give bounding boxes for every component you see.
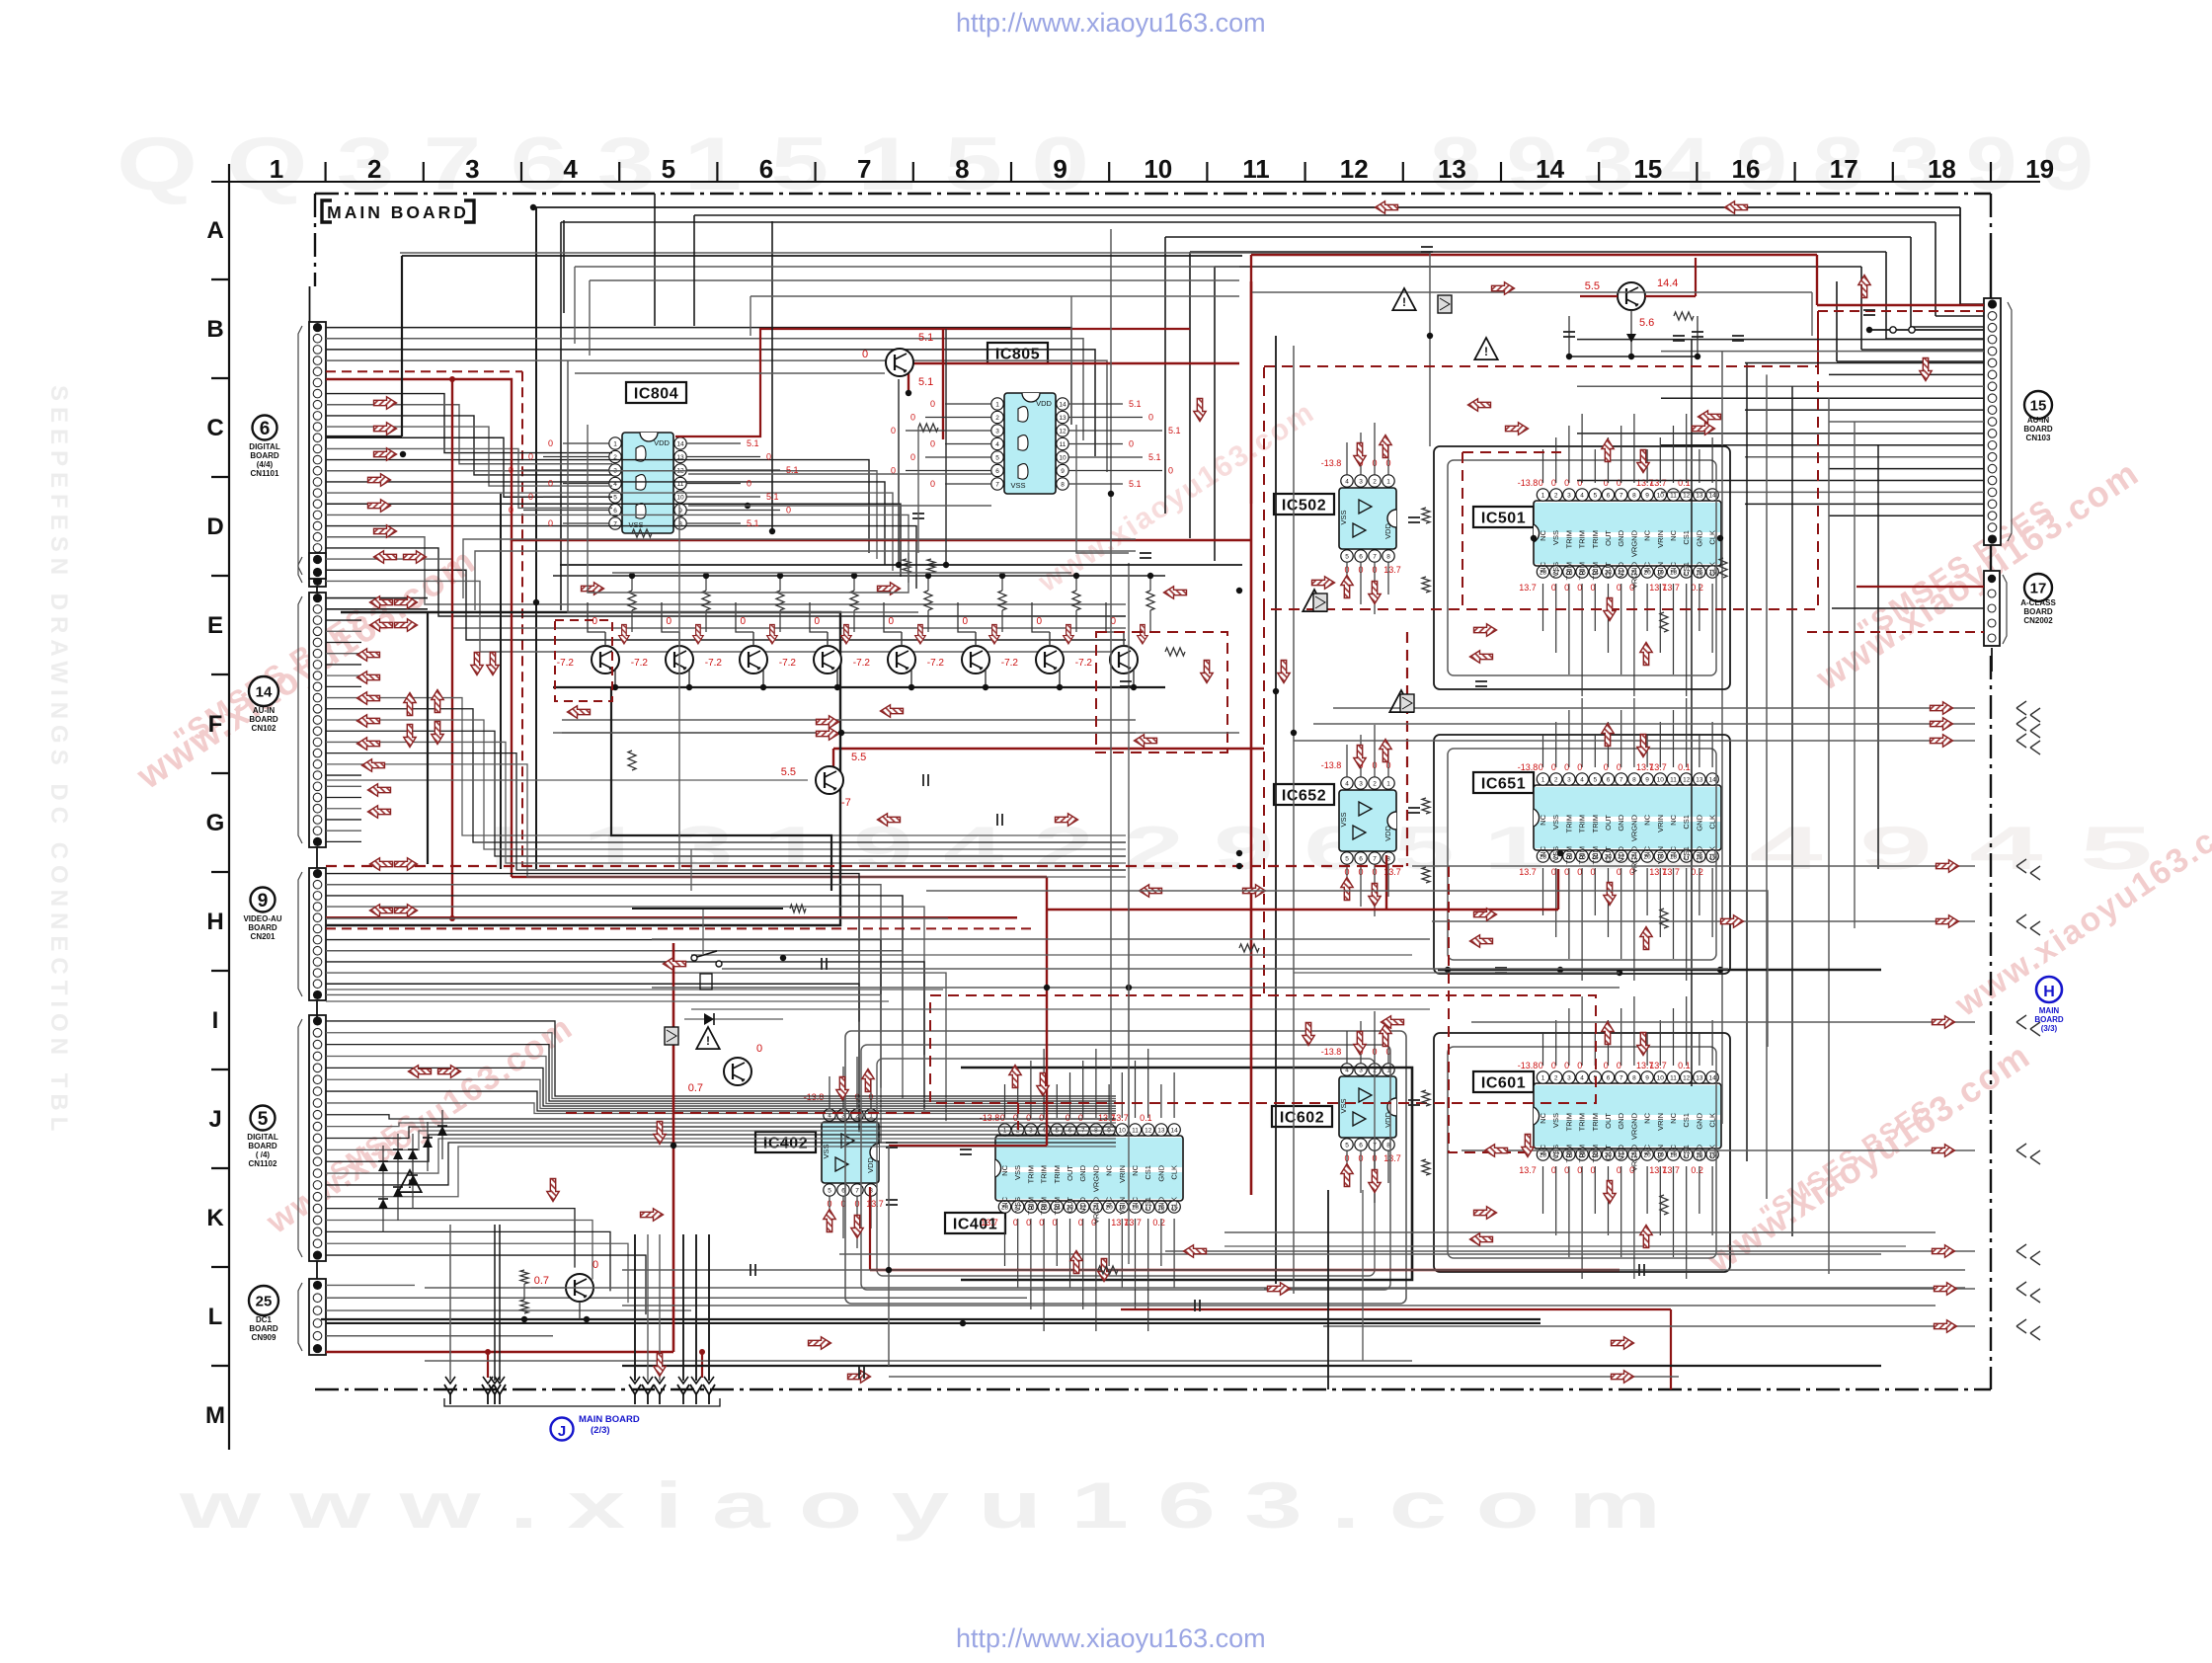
svg-text:6: 6 (613, 508, 617, 515)
svg-text:12: 12 (1683, 1075, 1691, 1082)
svg-text:3: 3 (1567, 1075, 1571, 1082)
svg-text:0: 0 (1129, 439, 1134, 449)
svg-text:VDD: VDD (866, 1157, 875, 1173)
svg-text:BOARD: BOARD (248, 923, 277, 932)
svg-text:IC652: IC652 (1282, 788, 1326, 805)
svg-text:NC: NC (1643, 814, 1652, 825)
svg-text:16: 16 (1732, 154, 1761, 184)
svg-text:VSS: VSS (1551, 815, 1560, 830)
svg-text:13.7: 13.7 (981, 1218, 998, 1227)
svg-text:0: 0 (1168, 466, 1173, 476)
svg-text:0: 0 (862, 349, 868, 360)
svg-text:10: 10 (1119, 1128, 1127, 1135)
svg-text:CN2002: CN2002 (2023, 616, 2053, 625)
svg-text:5: 5 (1593, 493, 1597, 500)
svg-text:(4/4): (4/4) (257, 460, 274, 469)
svg-text:TRIM: TRIM (1040, 1165, 1049, 1183)
svg-text:6: 6 (1359, 1143, 1363, 1149)
svg-text:-7.2: -7.2 (1001, 658, 1019, 669)
svg-text:0: 0 (666, 616, 671, 627)
svg-text:VIDEO-AU: VIDEO-AU (243, 914, 281, 923)
svg-text:VRIN: VRIN (1118, 1197, 1127, 1215)
svg-text:A: A (206, 217, 223, 244)
svg-text:CS1: CS1 (1144, 1197, 1152, 1212)
svg-text:4: 4 (1345, 479, 1349, 486)
svg-text:7: 7 (995, 482, 999, 489)
svg-text:A-CLASS: A-CLASS (2020, 598, 2056, 607)
svg-text:19: 19 (2025, 154, 2054, 184)
svg-text:5.1: 5.1 (766, 492, 779, 502)
svg-text:GND: GND (1156, 1196, 1165, 1213)
svg-text:D: D (206, 514, 223, 540)
svg-text:2: 2 (1554, 777, 1558, 784)
svg-text:I: I (212, 1007, 219, 1034)
svg-text:CS1: CS1 (1144, 1165, 1152, 1180)
svg-text:6: 6 (759, 154, 773, 184)
svg-text:7: 7 (857, 154, 871, 184)
svg-text:-7.2: -7.2 (557, 658, 575, 669)
svg-text:10: 10 (1657, 777, 1665, 784)
svg-text:5: 5 (1345, 1143, 1349, 1149)
svg-text:12: 12 (1059, 429, 1066, 436)
svg-text:TRIM: TRIM (1578, 562, 1587, 580)
svg-text:0.7: 0.7 (688, 1082, 703, 1094)
svg-text:OUT: OUT (1604, 1113, 1613, 1129)
svg-text:-13.8: -13.8 (1518, 1061, 1539, 1070)
svg-text:10: 10 (676, 495, 684, 502)
svg-text:5: 5 (662, 154, 675, 184)
svg-text:0: 0 (1148, 413, 1153, 423)
svg-text:0.7: 0.7 (534, 1275, 549, 1287)
svg-text:3: 3 (1567, 777, 1571, 784)
svg-text:VRIN: VRIN (1656, 1113, 1665, 1131)
svg-text:NC: NC (1539, 561, 1547, 572)
svg-text:4: 4 (1580, 1075, 1584, 1082)
svg-text:( /4): ( /4) (256, 1150, 271, 1159)
svg-text:VRIN: VRIN (1656, 530, 1665, 548)
svg-text:VSS: VSS (1551, 530, 1560, 545)
svg-text:1: 1 (1541, 777, 1545, 784)
svg-text:CN201: CN201 (251, 932, 276, 941)
svg-text:IC651: IC651 (1481, 776, 1526, 793)
svg-text:13: 13 (1157, 1128, 1165, 1135)
svg-text:TRIM: TRIM (1591, 846, 1600, 864)
svg-text:0: 0 (756, 1043, 762, 1055)
svg-text:13.7: 13.7 (1662, 867, 1680, 877)
svg-text:VSS: VSS (1551, 1113, 1560, 1128)
svg-text:-13.8: -13.8 (980, 1113, 1000, 1123)
svg-text:11: 11 (1242, 154, 1270, 184)
svg-text:8: 8 (955, 154, 969, 184)
svg-text:VRIN: VRIN (1656, 1145, 1665, 1162)
svg-text:0: 0 (930, 479, 935, 489)
svg-text:10: 10 (1059, 455, 1066, 462)
svg-text:0: 0 (548, 438, 553, 448)
svg-text:1: 1 (1386, 479, 1390, 486)
svg-text:2: 2 (1554, 493, 1558, 500)
svg-text:CS1: CS1 (1682, 1145, 1691, 1159)
svg-text:VSS: VSS (1551, 562, 1560, 577)
svg-text:5.5: 5.5 (781, 766, 796, 778)
svg-text:2: 2 (995, 415, 999, 422)
svg-text:6: 6 (1607, 493, 1611, 500)
svg-text:14: 14 (256, 683, 273, 700)
svg-text:VRGND: VRGND (1629, 1112, 1638, 1140)
svg-text:CS1: CS1 (1682, 562, 1691, 577)
svg-text:GND: GND (1695, 814, 1703, 831)
svg-text:13: 13 (1696, 493, 1703, 500)
svg-text:6: 6 (1607, 1075, 1611, 1082)
svg-text:11: 11 (1670, 493, 1677, 500)
svg-text:NC: NC (1105, 1164, 1114, 1175)
svg-text:13: 13 (1696, 777, 1703, 784)
svg-text:H: H (2043, 984, 2055, 1000)
svg-text:6: 6 (260, 419, 271, 439)
svg-text:5: 5 (1593, 777, 1597, 784)
svg-text:VDD: VDD (1617, 561, 1625, 577)
svg-text:14: 14 (1536, 154, 1564, 184)
svg-text:VSS: VSS (1013, 1197, 1022, 1212)
svg-text:M: M (205, 1402, 225, 1429)
svg-text:2: 2 (367, 154, 381, 184)
svg-text:4: 4 (1345, 781, 1349, 788)
svg-text:K: K (206, 1205, 224, 1231)
svg-text:0: 0 (592, 616, 597, 627)
svg-text:11: 11 (1670, 1075, 1677, 1082)
svg-text:IC502: IC502 (1282, 498, 1326, 515)
svg-text:8: 8 (1632, 1075, 1636, 1082)
svg-text:14: 14 (1059, 402, 1066, 409)
svg-text:TRIM: TRIM (1564, 815, 1573, 832)
svg-text:VSS: VSS (1339, 812, 1348, 827)
svg-text:13.7: 13.7 (1519, 583, 1537, 593)
svg-text:13: 13 (1059, 415, 1066, 422)
svg-text:0: 0 (962, 616, 968, 627)
svg-text:2: 2 (1373, 781, 1377, 788)
svg-text:TRIM: TRIM (1591, 1113, 1600, 1131)
svg-text:C: C (206, 415, 223, 441)
svg-text:H: H (206, 909, 223, 935)
svg-text:9: 9 (258, 891, 269, 911)
svg-text:3: 3 (465, 154, 479, 184)
svg-text:0: 0 (592, 1259, 598, 1271)
svg-text:IC402: IC402 (763, 1136, 808, 1152)
svg-text:7: 7 (1619, 1075, 1623, 1082)
svg-text:NC: NC (1539, 529, 1547, 540)
svg-text:(3/3): (3/3) (2041, 1024, 2058, 1033)
svg-text:7: 7 (1619, 493, 1623, 500)
svg-text:0.1: 0.1 (1678, 762, 1691, 772)
svg-text:CS1: CS1 (1682, 846, 1691, 861)
svg-text:"SMSES BSES: "SMSES BSES (1755, 1092, 1937, 1229)
svg-text:SEEPEFESN DRAWINGS DC CONNECTI: SEEPEFESN DRAWINGS DC CONNECTION TBL (45, 385, 72, 1137)
svg-text:3: 3 (1359, 781, 1363, 788)
svg-text:3: 3 (1359, 479, 1363, 486)
svg-text:5.1: 5.1 (918, 376, 933, 388)
svg-text:0: 0 (888, 616, 894, 627)
svg-text:9: 9 (1061, 468, 1065, 475)
svg-text:B: B (206, 316, 223, 343)
svg-text:GND: GND (1695, 845, 1703, 862)
svg-text:CN909: CN909 (252, 1333, 276, 1342)
svg-text:VRGND: VRGND (1629, 529, 1638, 557)
svg-text:11: 11 (1670, 777, 1677, 784)
svg-text:0: 0 (1036, 616, 1042, 627)
svg-text:7: 7 (855, 1188, 859, 1195)
svg-text:5: 5 (1345, 856, 1349, 863)
svg-text:NC: NC (1643, 561, 1652, 572)
svg-text:DC1: DC1 (256, 1315, 273, 1324)
svg-text:VDD: VDD (1617, 845, 1625, 861)
svg-text:14: 14 (1708, 493, 1716, 500)
svg-text:http://www.xiaoyu163.com: http://www.xiaoyu163.com (956, 1623, 1266, 1653)
svg-text:TRIM: TRIM (1026, 1165, 1035, 1183)
svg-text:TRIM: TRIM (1026, 1197, 1035, 1215)
svg-text:OUT: OUT (1066, 1165, 1074, 1181)
svg-text:0: 0 (528, 452, 533, 462)
svg-text:0: 0 (910, 413, 915, 423)
svg-text:0.2: 0.2 (1691, 867, 1703, 877)
svg-text:BOARD: BOARD (249, 715, 278, 724)
svg-text:VRIN: VRIN (1118, 1165, 1127, 1183)
svg-text:13.7: 13.7 (1124, 1218, 1142, 1227)
svg-text:15: 15 (2030, 397, 2047, 414)
svg-text:8: 8 (1386, 554, 1390, 561)
svg-text:5: 5 (828, 1188, 831, 1195)
svg-text:13.7: 13.7 (1649, 1061, 1667, 1070)
svg-text:MAIN BOARD: MAIN BOARD (579, 1414, 640, 1425)
svg-text:TRIM: TRIM (1591, 815, 1600, 832)
svg-text:4: 4 (995, 441, 999, 448)
svg-text:1: 1 (1386, 781, 1390, 788)
svg-text:CN1102: CN1102 (249, 1159, 277, 1168)
svg-text:VSS: VSS (1339, 1098, 1348, 1113)
svg-text:9: 9 (1645, 777, 1649, 784)
svg-text:18: 18 (1928, 154, 1956, 184)
svg-text:4: 4 (1580, 493, 1584, 500)
svg-text:9: 9 (1645, 1075, 1649, 1082)
svg-text:0: 0 (930, 399, 935, 409)
svg-text:BOARD: BOARD (249, 1324, 278, 1333)
svg-text:VDD: VDD (654, 438, 670, 447)
svg-text:CS1: CS1 (1682, 815, 1691, 830)
svg-text:OUT: OUT (1604, 815, 1613, 831)
svg-text:5.1: 5.1 (1129, 399, 1142, 409)
svg-text:12: 12 (1683, 777, 1691, 784)
svg-text:CN1101: CN1101 (251, 469, 279, 478)
svg-text:0.1: 0.1 (1140, 1113, 1152, 1123)
svg-text:TRIM: TRIM (1053, 1197, 1062, 1215)
svg-text:0: 0 (740, 616, 746, 627)
svg-text:0: 0 (528, 492, 533, 502)
svg-text:OUT: OUT (1604, 562, 1613, 578)
svg-text:5.1: 5.1 (747, 438, 759, 448)
svg-text:10: 10 (1657, 493, 1665, 500)
svg-text:VSS: VSS (1551, 1145, 1560, 1159)
svg-text:7: 7 (1619, 777, 1623, 784)
svg-text:5: 5 (258, 1109, 269, 1130)
svg-text:TRIM: TRIM (1053, 1165, 1062, 1183)
svg-text:-7.2: -7.2 (705, 658, 723, 669)
svg-text:25: 25 (256, 1293, 273, 1309)
svg-text:2: 2 (1373, 479, 1377, 486)
svg-text:NC: NC (1539, 1144, 1547, 1154)
svg-text:OUT: OUT (1604, 530, 1613, 546)
svg-text:GND: GND (1695, 1112, 1703, 1129)
svg-text:VDD: VDD (1383, 523, 1392, 539)
svg-text:NC: NC (1539, 814, 1547, 825)
svg-text:GND: GND (1156, 1164, 1165, 1181)
svg-text:VSS: VSS (628, 520, 643, 529)
svg-text:NC: NC (1643, 1144, 1652, 1154)
svg-text:www.xiaoyu163.com: www.xiaoyu163.com (259, 1008, 580, 1241)
svg-text:VDD: VDD (1078, 1196, 1087, 1212)
svg-text:NC: NC (1669, 814, 1678, 825)
svg-text:NC: NC (1000, 1196, 1009, 1207)
svg-text:MAIN BOARD: MAIN BOARD (327, 202, 469, 222)
svg-text:CS1: CS1 (1682, 530, 1691, 545)
svg-text:-7: -7 (841, 797, 851, 809)
svg-text:11: 11 (1132, 1128, 1139, 1135)
svg-text:NC: NC (1669, 845, 1678, 856)
svg-text:!: ! (1402, 295, 1406, 309)
svg-text:NC: NC (1669, 561, 1678, 572)
svg-text:L: L (208, 1304, 223, 1330)
svg-text:13.7: 13.7 (1383, 1153, 1401, 1163)
svg-text:8: 8 (1632, 777, 1636, 784)
svg-text:IC602: IC602 (1280, 1110, 1324, 1127)
svg-text:5.6: 5.6 (1639, 317, 1654, 329)
svg-text:13.7: 13.7 (1111, 1113, 1129, 1123)
svg-text:5.1: 5.1 (747, 518, 759, 528)
svg-text:VSS: VSS (1013, 1165, 1022, 1180)
svg-text:GND: GND (1617, 1112, 1625, 1129)
svg-text:NC: NC (1131, 1196, 1140, 1207)
svg-text:VRIN: VRIN (1656, 815, 1665, 832)
svg-text:14: 14 (1708, 1075, 1716, 1082)
svg-text:CLK: CLK (1170, 1165, 1179, 1180)
svg-text:w w w . x i a o y u 1 6 3 . c: w w w . x i a o y u 1 6 3 . c o m (178, 1468, 1661, 1542)
svg-text:11: 11 (1060, 441, 1066, 448)
svg-text:13: 13 (1696, 1075, 1703, 1082)
svg-text:1: 1 (1541, 1075, 1545, 1082)
svg-text:7: 7 (1373, 856, 1377, 863)
svg-text:12: 12 (1145, 1128, 1152, 1135)
svg-text:1: 1 (270, 154, 283, 184)
svg-text:13.7: 13.7 (1662, 583, 1680, 593)
svg-text:NC: NC (1131, 1164, 1140, 1175)
svg-text:VSS: VSS (1010, 481, 1025, 490)
svg-text:13.7: 13.7 (1383, 565, 1401, 575)
svg-text:NC: NC (1669, 1144, 1678, 1154)
svg-text:TRIM: TRIM (1564, 530, 1573, 548)
svg-text:6: 6 (1359, 856, 1363, 863)
svg-text:TRIM: TRIM (1040, 1197, 1049, 1215)
svg-text:14: 14 (1170, 1128, 1178, 1135)
svg-text:G: G (206, 810, 225, 836)
svg-text:0.2: 0.2 (1691, 1165, 1703, 1175)
svg-text:5.1: 5.1 (918, 332, 933, 344)
svg-text:10: 10 (1657, 1075, 1665, 1082)
svg-text:OUT: OUT (1604, 1145, 1613, 1160)
svg-text:5.1: 5.1 (1168, 426, 1181, 436)
svg-text:6: 6 (1607, 777, 1611, 784)
svg-text:E: E (207, 612, 223, 639)
svg-text:-7.2: -7.2 (631, 658, 649, 669)
svg-text:OUT: OUT (1066, 1197, 1074, 1213)
svg-text:8 9 3 4 9 8 3 9 9: 8 9 3 4 9 8 3 9 9 (1430, 122, 2093, 206)
svg-text:NC: NC (1643, 529, 1652, 540)
svg-text:12: 12 (1683, 493, 1691, 500)
svg-text:0: 0 (930, 439, 935, 449)
svg-text:5.5: 5.5 (1585, 280, 1600, 292)
svg-text:4: 4 (563, 154, 578, 184)
svg-text:AU-IN: AU-IN (253, 706, 275, 715)
svg-text:TRIM: TRIM (1564, 1113, 1573, 1131)
svg-text:-13.8: -13.8 (1321, 1047, 1342, 1057)
svg-text:13.7: 13.7 (1662, 1165, 1680, 1175)
svg-text:-7.2: -7.2 (779, 658, 797, 669)
svg-text:NC: NC (1105, 1196, 1114, 1207)
svg-text:CLK: CLK (1170, 1197, 1179, 1212)
svg-text:13: 13 (1438, 154, 1466, 184)
svg-text:TRIM: TRIM (1564, 562, 1573, 580)
svg-text:TRIM: TRIM (1591, 530, 1600, 548)
svg-text:14.4: 14.4 (1657, 277, 1678, 289)
svg-text:TRIM: TRIM (1591, 1145, 1600, 1162)
svg-text:0.2: 0.2 (1152, 1218, 1165, 1227)
svg-text:-7.2: -7.2 (927, 658, 945, 669)
svg-text:8: 8 (1632, 493, 1636, 500)
svg-text:0.2: 0.2 (1691, 583, 1703, 593)
svg-text:GND: GND (1617, 814, 1625, 831)
svg-text:6: 6 (995, 468, 999, 475)
svg-text:5.1: 5.1 (1148, 452, 1161, 462)
svg-text:5: 5 (1345, 554, 1349, 561)
svg-text:5: 5 (613, 495, 617, 502)
svg-text:0: 0 (814, 616, 820, 627)
svg-text:VRGND: VRGND (1091, 1164, 1100, 1192)
svg-text:BOARD: BOARD (2023, 425, 2053, 434)
svg-text:1: 1 (613, 441, 617, 448)
svg-text:BOARD: BOARD (2023, 607, 2053, 616)
svg-text:7: 7 (1373, 554, 1377, 561)
svg-text:0: 0 (509, 506, 513, 515)
svg-text:12: 12 (1340, 154, 1369, 184)
svg-text:!: ! (1484, 345, 1488, 358)
svg-text:DIGITAL: DIGITAL (249, 442, 280, 451)
svg-text:TRIM: TRIM (1578, 815, 1587, 832)
svg-text:VRGND: VRGND (1629, 814, 1638, 841)
svg-text:CN102: CN102 (252, 724, 276, 733)
svg-text:NC: NC (1539, 1112, 1547, 1123)
svg-text:GND: GND (1617, 529, 1625, 546)
svg-text:GND: GND (1078, 1164, 1087, 1181)
svg-text:GND: GND (1695, 529, 1703, 546)
svg-text:-13.8: -13.8 (1518, 762, 1539, 772)
svg-text:NC: NC (1539, 845, 1547, 856)
svg-text:IC501: IC501 (1481, 511, 1526, 527)
svg-text:-13.8: -13.8 (1321, 760, 1342, 770)
svg-text:NC: NC (1669, 1112, 1678, 1123)
svg-text:0: 0 (766, 452, 771, 462)
svg-text:GND: GND (1695, 561, 1703, 578)
svg-text:9: 9 (1645, 493, 1649, 500)
svg-text:3: 3 (1567, 493, 1571, 500)
svg-text:DIGITAL: DIGITAL (247, 1133, 278, 1142)
svg-text:MAIN: MAIN (2039, 1006, 2060, 1015)
svg-text:17: 17 (2030, 580, 2047, 596)
